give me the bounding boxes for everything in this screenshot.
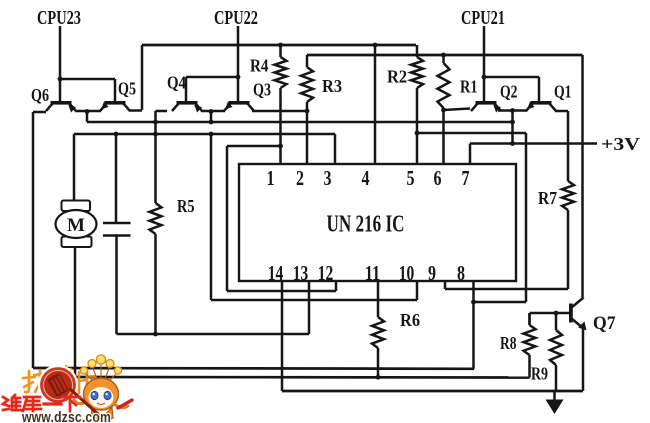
svg-text:12: 12 xyxy=(318,261,334,285)
svg-text:14: 14 xyxy=(268,261,284,285)
svg-text:6: 6 xyxy=(434,166,442,190)
svg-text:CPU22: CPU22 xyxy=(214,8,258,29)
svg-text:1: 1 xyxy=(267,166,275,190)
svg-text:Q5: Q5 xyxy=(118,79,136,99)
svg-text:R3: R3 xyxy=(322,76,342,96)
svg-text:10: 10 xyxy=(399,261,415,285)
svg-text:Q2: Q2 xyxy=(500,82,518,102)
svg-text:R5: R5 xyxy=(177,196,195,216)
svg-text:4: 4 xyxy=(362,166,370,190)
svg-text:8: 8 xyxy=(457,261,465,285)
svg-text:CPU23: CPU23 xyxy=(37,8,81,29)
svg-text:R6: R6 xyxy=(400,310,420,330)
svg-text:Q4: Q4 xyxy=(167,73,186,93)
svg-text:7: 7 xyxy=(462,166,470,190)
svg-text:13: 13 xyxy=(293,261,309,285)
svg-text:Q7: Q7 xyxy=(593,313,616,334)
svg-text:M: M xyxy=(67,215,85,236)
svg-text:Q1: Q1 xyxy=(554,82,572,102)
svg-text:Q3: Q3 xyxy=(253,80,271,100)
svg-text:R1: R1 xyxy=(460,77,478,97)
svg-text:2: 2 xyxy=(296,166,304,190)
svg-text:R7: R7 xyxy=(538,188,557,208)
svg-text:11: 11 xyxy=(365,261,381,285)
svg-text:R8: R8 xyxy=(500,333,517,353)
svg-text:R4: R4 xyxy=(250,56,269,76)
svg-text:5: 5 xyxy=(407,166,415,190)
svg-text:R2: R2 xyxy=(387,67,407,87)
svg-text:R9: R9 xyxy=(531,364,548,384)
svg-text:Q6: Q6 xyxy=(31,85,49,105)
svg-text:9: 9 xyxy=(428,261,436,285)
svg-text:3: 3 xyxy=(324,166,332,190)
svg-text:+3V: +3V xyxy=(601,134,640,154)
svg-text:www.dzsc.com: www.dzsc.com xyxy=(21,410,111,423)
svg-text:UN 216 IC: UN 216 IC xyxy=(327,212,405,238)
svg-text:CPU21: CPU21 xyxy=(461,8,505,29)
